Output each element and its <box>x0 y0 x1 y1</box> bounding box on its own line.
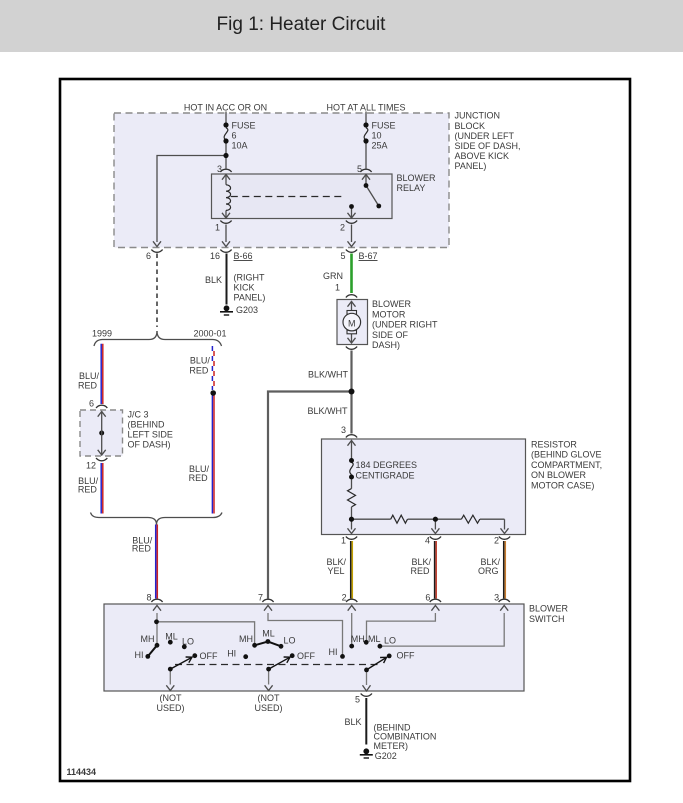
svg-text:RED: RED <box>189 366 209 376</box>
svg-text:BLK: BLK <box>205 275 222 285</box>
svg-text:BLOWER: BLOWER <box>529 604 569 614</box>
svg-text:RED: RED <box>132 544 152 554</box>
svg-text:YEL: YEL <box>327 566 344 576</box>
svg-text:FUSE: FUSE <box>372 121 396 131</box>
svg-text:HI: HI <box>329 647 338 657</box>
svg-text:(UNDER RIGHT: (UNDER RIGHT <box>372 320 438 330</box>
svg-text:3: 3 <box>217 164 222 174</box>
svg-text:G203: G203 <box>236 305 258 315</box>
svg-text:HOT IN ACC OR ON: HOT IN ACC OR ON <box>184 103 267 113</box>
svg-text:(UNDER LEFT: (UNDER LEFT <box>455 131 515 141</box>
svg-text:FUSE: FUSE <box>232 121 256 131</box>
svg-text:MH: MH <box>351 634 365 644</box>
svg-text:GRN: GRN <box>323 271 343 281</box>
svg-text:3: 3 <box>341 425 346 435</box>
svg-text:5: 5 <box>357 164 362 174</box>
svg-text:LO: LO <box>182 637 194 647</box>
svg-text:16: 16 <box>210 251 220 261</box>
svg-text:B-66: B-66 <box>234 251 253 261</box>
svg-text:SWITCH: SWITCH <box>529 614 565 624</box>
svg-text:ON BLOWER: ON BLOWER <box>531 470 587 480</box>
svg-text:G202: G202 <box>375 751 397 761</box>
svg-text:OF DASH): OF DASH) <box>128 440 171 450</box>
svg-text:8: 8 <box>146 593 151 603</box>
svg-text:6: 6 <box>425 593 430 603</box>
svg-text:10A: 10A <box>232 140 248 150</box>
svg-text:PANEL): PANEL) <box>234 293 266 303</box>
svg-text:6: 6 <box>146 251 151 261</box>
svg-text:114434: 114434 <box>67 767 97 777</box>
svg-text:CENTIGRADE: CENTIGRADE <box>356 471 415 481</box>
svg-text:184 DEGREES: 184 DEGREES <box>356 460 418 470</box>
svg-text:BLK/WHT: BLK/WHT <box>308 370 349 380</box>
svg-text:OFF: OFF <box>397 651 415 661</box>
svg-text:(NOT: (NOT <box>258 693 280 703</box>
svg-text:4: 4 <box>425 536 430 546</box>
svg-text:LO: LO <box>284 636 296 646</box>
svg-text:B-67: B-67 <box>359 251 378 261</box>
svg-text:BLU/: BLU/ <box>190 356 211 366</box>
svg-text:HI: HI <box>135 650 144 660</box>
svg-text:7: 7 <box>258 593 263 603</box>
svg-text:BLK/WHT: BLK/WHT <box>307 406 348 416</box>
svg-text:HI: HI <box>227 649 236 659</box>
svg-text:ORG: ORG <box>478 566 499 576</box>
svg-text:MH: MH <box>141 634 155 644</box>
svg-text:RED: RED <box>78 380 98 390</box>
svg-text:JUNCTION: JUNCTION <box>455 111 501 121</box>
svg-text:(RIGHT: (RIGHT <box>234 273 265 283</box>
svg-text:2000-01: 2000-01 <box>193 329 226 339</box>
svg-text:KICK: KICK <box>234 283 255 293</box>
svg-text:OFF: OFF <box>297 651 315 661</box>
svg-text:1999: 1999 <box>92 329 112 339</box>
svg-text:25A: 25A <box>372 140 388 150</box>
svg-text:RESISTOR: RESISTOR <box>531 439 577 449</box>
svg-text:ML: ML <box>368 634 381 644</box>
svg-text:RED: RED <box>410 566 430 576</box>
svg-text:BLOWER: BLOWER <box>397 173 437 183</box>
svg-text:ML: ML <box>262 629 275 639</box>
svg-text:6: 6 <box>89 399 94 409</box>
svg-text:(BEHIND GLOVE: (BEHIND GLOVE <box>531 450 602 460</box>
svg-text:RELAY: RELAY <box>397 183 426 193</box>
svg-text:HOT AT ALL TIMES: HOT AT ALL TIMES <box>326 103 405 113</box>
svg-text:(NOT: (NOT <box>160 693 182 703</box>
svg-text:1: 1 <box>335 283 340 293</box>
svg-text:2: 2 <box>494 536 499 546</box>
svg-text:SIDE OF DASH,: SIDE OF DASH, <box>455 141 521 151</box>
svg-text:LEFT SIDE: LEFT SIDE <box>128 430 173 440</box>
svg-text:12: 12 <box>86 461 96 471</box>
svg-text:ML: ML <box>165 631 178 641</box>
svg-text:METER): METER) <box>374 741 409 751</box>
svg-text:6: 6 <box>232 131 237 141</box>
svg-text:5: 5 <box>355 695 360 705</box>
svg-text:1: 1 <box>215 223 220 233</box>
svg-text:USED): USED) <box>254 703 282 713</box>
svg-text:2: 2 <box>340 223 345 233</box>
svg-text:BLK: BLK <box>344 717 361 727</box>
svg-text:2: 2 <box>342 593 347 603</box>
svg-text:RED: RED <box>78 485 98 495</box>
svg-text:PANEL): PANEL) <box>455 161 487 171</box>
svg-text:ABOVE KICK: ABOVE KICK <box>455 151 510 161</box>
svg-text:DASH): DASH) <box>372 340 400 350</box>
svg-text:BLOCK: BLOCK <box>455 121 486 131</box>
svg-text:MOTOR CASE): MOTOR CASE) <box>531 481 594 491</box>
svg-text:5: 5 <box>340 251 345 261</box>
svg-text:COMPARTMENT,: COMPARTMENT, <box>531 460 602 470</box>
svg-text:MOTOR: MOTOR <box>372 309 406 319</box>
svg-text:OFF: OFF <box>200 651 218 661</box>
svg-text:USED): USED) <box>156 703 184 713</box>
svg-text:10: 10 <box>372 131 382 141</box>
svg-text:SIDE OF: SIDE OF <box>372 330 409 340</box>
svg-text:LO: LO <box>384 636 396 646</box>
svg-text:(BEHIND: (BEHIND <box>128 420 166 430</box>
svg-text:J/C 3: J/C 3 <box>128 410 149 420</box>
svg-text:1: 1 <box>341 536 346 546</box>
svg-text:3: 3 <box>494 593 499 603</box>
svg-text:BLOWER: BLOWER <box>372 299 412 309</box>
svg-text:M: M <box>348 318 356 328</box>
svg-text:MH: MH <box>239 634 253 644</box>
svg-text:RED: RED <box>189 473 209 483</box>
